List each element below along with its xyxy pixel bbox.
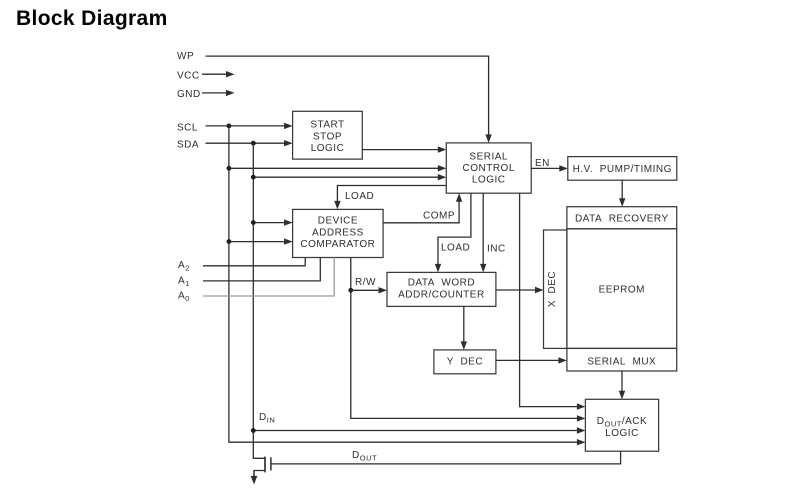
pin A2 [178, 260, 190, 273]
wire serial control logic to Dout/Ack logic (top input) [520, 193, 586, 410]
svg-text:DOUT/ACK: DOUT/ACK [597, 416, 647, 429]
svg-text:WP: WP [177, 51, 194, 62]
svg-text:VCC: VCC [177, 70, 200, 81]
pin GND [177, 89, 201, 100]
svg-text:A0: A0 [178, 290, 190, 303]
pin SDA [177, 139, 199, 150]
wire COMP device address comparator to serial control logic [383, 193, 462, 223]
svg-text:A2: A2 [178, 260, 190, 273]
wire HV pump to data recovery [619, 180, 625, 207]
wire A2 to device address comparator [203, 258, 305, 266]
wire A1 to device address comparator [203, 258, 320, 281]
wire A0 to device address comparator (gray) [203, 258, 334, 297]
block START STOP LOGIC [293, 111, 363, 159]
block X DEC [544, 230, 567, 348]
block H.V. PUMP/TIMING [568, 157, 677, 181]
wire SDA tap to device address comparator [251, 219, 293, 225]
wire SCL tap to device address comparator [227, 238, 293, 244]
wire INC serial control to data word addr/counter [480, 193, 486, 272]
block SERIAL CONTROL LOGIC [446, 143, 531, 193]
svg-text:DEVICE: DEVICE [318, 216, 358, 227]
block DATA WORD ADDR/COUNTER [387, 272, 496, 306]
svg-text:H.V. PUMP/TIMING: H.V. PUMP/TIMING [573, 164, 672, 175]
pin arrow SDA output (down) [251, 471, 258, 485]
wire SDA to start stop logic [206, 140, 293, 146]
wire data word addr/counter to X DEC [496, 287, 544, 293]
wire Y DEC to serial mux [496, 357, 567, 363]
pin A1 [178, 275, 190, 288]
label LOAD (device address comparator) [345, 191, 374, 202]
svg-text:A1: A1 [178, 275, 190, 288]
svg-text:DIN: DIN [259, 412, 275, 425]
label DOUT [352, 450, 377, 463]
svg-text:LOGIC: LOGIC [472, 175, 506, 186]
svg-text:SDA: SDA [177, 139, 199, 150]
svg-text:EN: EN [535, 158, 550, 169]
wire data word addr/counter to Y DEC [461, 306, 467, 350]
wire LOAD serial control to device address comparator [334, 186, 446, 210]
svg-text:LOAD: LOAD [441, 243, 470, 254]
label R/W [355, 277, 376, 288]
wire DIN to Dout/Ack logic (third input) [251, 427, 586, 433]
block DOUT/ACK LOGIC [585, 399, 658, 451]
svg-text:STOP: STOP [313, 131, 342, 142]
svg-text:LOGIC: LOGIC [605, 428, 639, 439]
wire SCL tap to serial control logic [227, 165, 447, 171]
block DEVICE ADDRESS COMPARATOR [293, 209, 384, 257]
svg-text:COMPARATOR: COMPARATOR [300, 239, 375, 250]
wire EN serial control to HV pump [531, 165, 568, 171]
wire GND arrow [202, 90, 235, 96]
block DATA RECOVERY [567, 207, 677, 229]
label COMP [423, 211, 455, 222]
svg-text:START: START [310, 120, 344, 131]
wire LOAD serial control to data word addr/counter [435, 193, 471, 272]
svg-text:DOUT: DOUT [352, 450, 377, 463]
block EEPROM [567, 229, 677, 349]
transistor Q1 output driver [253, 457, 271, 478]
wire DOUT from Dout/Ack logic to output transistor gate [271, 451, 621, 464]
svg-text:SERIAL MUX: SERIAL MUX [587, 357, 656, 368]
label LOAD (data word addr/counter) [441, 243, 470, 254]
svg-text:ADDRESS: ADDRESS [312, 227, 364, 238]
wire SCL to start stop logic [206, 123, 293, 129]
wire VCC arrow [202, 71, 235, 77]
wire serial mux to Dout/Ack logic [619, 371, 625, 399]
svg-text:R/W: R/W [355, 277, 376, 288]
svg-text:ADDR/COUNTER: ADDR/COUNTER [398, 290, 485, 301]
wire SCL bus vertical down and into Dout/Ack logic (bottom input) [229, 126, 586, 446]
wire start stop logic to serial control logic [362, 146, 446, 152]
svg-text:LOGIC: LOGIC [311, 143, 345, 154]
block Y DEC [434, 350, 496, 374]
pin A0 [178, 290, 190, 303]
wire SDA tap to serial control logic [251, 174, 446, 180]
wire R/W device address comparator down to Dout/Ack logic (second input) [348, 258, 585, 422]
svg-text:X DEC: X DEC [547, 271, 558, 307]
title Block Diagram [16, 7, 168, 30]
wire WP to serial control logic top [206, 56, 492, 143]
svg-text:SCL: SCL [177, 122, 198, 133]
svg-text:Block Diagram: Block Diagram [16, 7, 168, 30]
svg-text:INC: INC [487, 244, 506, 255]
svg-text:GND: GND [177, 89, 201, 100]
block SERIAL MUX [567, 348, 677, 371]
pin SCL [177, 122, 198, 133]
wire SDA bus vertical down to output transistor [253, 143, 265, 458]
pin WP [177, 51, 194, 62]
svg-text:DATA WORD: DATA WORD [408, 278, 475, 289]
label INC [487, 244, 506, 255]
svg-text:SERIAL: SERIAL [469, 152, 508, 163]
svg-text:DATA RECOVERY: DATA RECOVERY [575, 214, 669, 225]
svg-text:CONTROL: CONTROL [462, 163, 514, 174]
pin VCC [177, 70, 200, 81]
label EN [535, 158, 550, 169]
label DIN [259, 412, 275, 425]
svg-text:COMP: COMP [423, 211, 455, 222]
svg-text:LOAD: LOAD [345, 191, 374, 202]
wire R/W tap to data word addr/counter [351, 287, 387, 293]
svg-text:EEPROM: EEPROM [599, 284, 645, 295]
svg-text:Y DEC: Y DEC [447, 356, 483, 367]
